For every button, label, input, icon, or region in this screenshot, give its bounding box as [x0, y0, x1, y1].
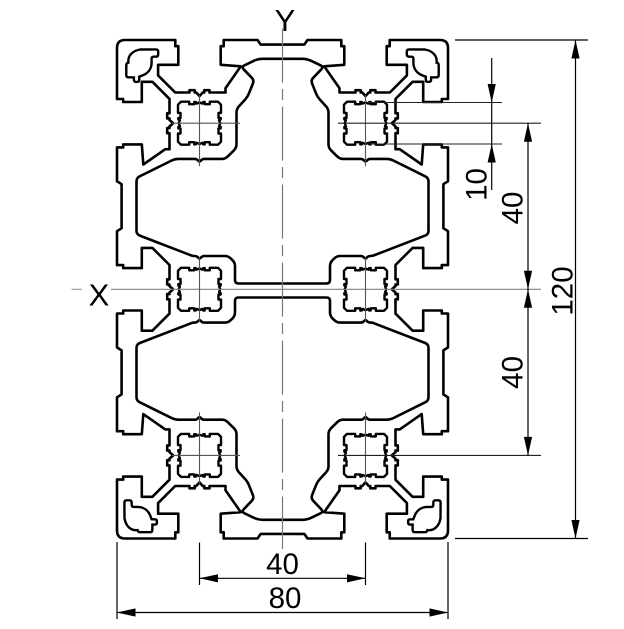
svg-text:10: 10: [461, 168, 494, 201]
svg-text:Y: Y: [275, 3, 296, 38]
svg-text:120: 120: [547, 266, 580, 315]
svg-text:X: X: [89, 278, 110, 313]
svg-text:40: 40: [497, 356, 530, 389]
svg-text:40: 40: [266, 548, 299, 581]
svg-text:40: 40: [497, 192, 530, 225]
svg-text:80: 80: [269, 582, 302, 615]
